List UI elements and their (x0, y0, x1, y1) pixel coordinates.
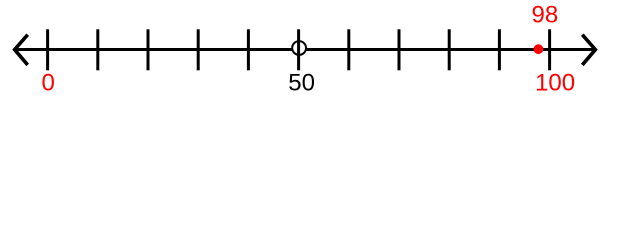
main horizontal line (14, 48, 596, 51)
tick 60 (347, 29, 350, 70)
tick 100 (548, 29, 551, 70)
tick 20 (147, 29, 150, 70)
svg-text:100: 100 (535, 70, 575, 97)
tick 70 (398, 29, 401, 70)
tick 80 (448, 29, 451, 70)
svg-text:0: 0 (42, 70, 55, 97)
svg-text:98: 98 (532, 2, 559, 29)
tick 30 (197, 29, 200, 70)
tick 0 (46, 29, 49, 70)
tick 50 (297, 29, 300, 70)
tick 10 (96, 29, 99, 70)
left arrowhead (15, 35, 28, 65)
open circle at 50 (292, 41, 306, 55)
svg-text:50: 50 (288, 70, 315, 97)
number line figure (0, 0, 618, 100)
tick 90 (498, 29, 501, 70)
red point at 98 (534, 44, 544, 54)
tick 40 (247, 29, 250, 70)
right arrowhead (582, 35, 595, 65)
